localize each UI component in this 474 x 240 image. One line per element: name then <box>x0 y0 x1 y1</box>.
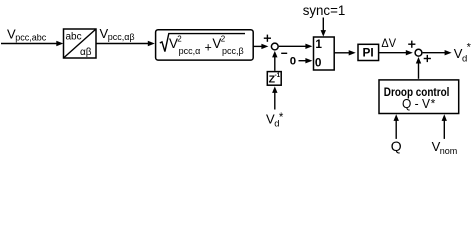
node Vpcc,abc input label <box>7 27 47 43</box>
svg-text:pcc,abc: pcc,abc <box>15 32 47 42</box>
summing junction 2 <box>415 49 422 56</box>
droop control block Q - V* <box>379 80 459 114</box>
transform block abc->alphabeta <box>64 29 97 58</box>
svg-text:-1: -1 <box>275 72 281 79</box>
wire Vnom up into droop control <box>442 114 447 139</box>
svg-text:0: 0 <box>315 56 322 70</box>
wire Vpcc,abc into abc/alphabeta block <box>1 41 63 46</box>
svg-text:pcc,αβ: pcc,αβ <box>108 32 135 42</box>
wire feedback from Z-1 up into summing junction 1 <box>272 51 277 71</box>
svg-text:d: d <box>462 54 467 65</box>
svg-text:pcc,α: pcc,α <box>179 46 201 56</box>
svg-text:Q - V: Q - V <box>402 96 430 111</box>
svg-text:αβ: αβ <box>80 47 92 58</box>
svg-text:*: * <box>467 42 472 54</box>
svg-text:Q: Q <box>391 138 402 154</box>
switch block 1/0 <box>314 37 335 70</box>
wire Q up into droop control <box>394 114 399 139</box>
svg-text:0: 0 <box>290 55 296 67</box>
svg-text:1: 1 <box>315 37 322 51</box>
svg-text:2: 2 <box>221 34 226 43</box>
wire sync=1 down into switch <box>321 18 326 37</box>
wire Vpcc,alphabeta into magnitude block <box>96 41 155 46</box>
svg-text:sync=1: sync=1 <box>303 2 346 18</box>
wire Vd* up into Z^-1 <box>272 86 277 109</box>
svg-text:+: + <box>205 41 212 55</box>
node Vpcc,alphabeta label <box>100 26 135 42</box>
PI controller block <box>358 44 379 60</box>
plus sign at summing junction 2 input <box>408 41 415 48</box>
svg-text:*: * <box>279 112 284 124</box>
plus sign at summing junction 1 input <box>264 35 271 42</box>
wire summing junction 1 to switch input 1 <box>279 44 312 49</box>
wire summing junction 2 to output Vd* <box>423 50 452 55</box>
svg-text:pcc,β: pcc,β <box>222 46 244 56</box>
wire constant 0 to switch input 0 <box>299 58 313 63</box>
svg-text:nom: nom <box>440 146 458 156</box>
wire magnitude block to summing junction 1 <box>253 44 268 49</box>
svg-text:*: * <box>431 97 436 111</box>
node output Vd* label <box>454 42 472 65</box>
wire PI to summing junction 2 <box>379 50 413 55</box>
svg-text:PI: PI <box>363 46 374 60</box>
node Vd* reference label (below Z^-1) <box>266 112 284 130</box>
svg-text:2: 2 <box>177 34 182 43</box>
summing junction 1 <box>271 43 278 50</box>
node Vnom input label <box>432 139 458 156</box>
plus sign at summing junction 2 droop input <box>424 55 431 62</box>
magnitude block sqrt(Vpcc,a^2+Vpcc,b^2) <box>156 30 254 60</box>
svg-text:abc: abc <box>66 32 82 43</box>
wire droop control up into summing junction 2 <box>416 57 421 79</box>
svg-text:ΔV: ΔV <box>381 36 396 50</box>
minus sign at summing junction 1 feedback input <box>281 52 287 54</box>
delay block Z^-1 <box>267 72 281 86</box>
wire switch to PI block <box>334 50 356 55</box>
